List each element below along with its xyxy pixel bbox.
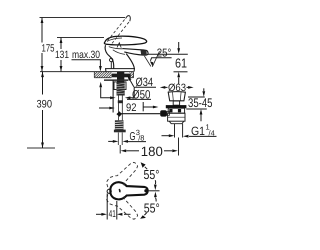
drain pop-up waste body [168,92,185,101]
horizontal drain rod + clamp [116,111,121,117]
wire bottom reference line (390 end) [27,147,55,149]
faucet spout [123,49,149,56]
deck hatch strokes [94,72,133,78]
svg-text:175: 175 [42,42,55,54]
G3/8 threaded end [115,120,124,129]
top view: pivot circle [107,189,111,193]
top view: lever dashed down [106,195,137,220]
faucet body outline [105,45,114,68]
threaded shank [117,82,125,96]
spray angle V [144,56,151,66]
top view: lever solid [110,182,147,199]
dimension 41 [106,194,108,220]
dimension 175 [41,18,43,72]
drain knob [160,110,167,116]
wire top reference line [40,17,126,19]
svg-text:55°: 55° [144,201,160,216]
centre pipe below [117,133,119,146]
dimension 131 [60,38,62,72]
dimension 61 [148,53,188,55]
svg-text:180: 180 [141,144,163,159]
svg-text:G: G [130,131,136,143]
55 upper arc [154,180,156,184]
svg-text:61: 61 [175,55,187,70]
svg-text:92: 92 [126,102,137,114]
wire deck reference line [40,71,134,73]
lever raised (dashed) [108,17,130,43]
55 lower arc [155,198,158,202]
svg-text:131: 131 [55,49,69,61]
dimension 180 [121,149,127,152]
svg-text:55°: 55° [144,167,160,182]
lever handle (side view, closed) [104,36,146,45]
svg-text:35-45: 35-45 [188,96,213,110]
svg-text:390: 390 [37,99,53,111]
lever pivot detail [117,43,121,48]
svg-text:41: 41 [109,209,116,220]
wire mid reference line (closed lever height) [57,37,104,39]
pull rod below deck [112,80,114,113]
dimension 390 [42,72,44,148]
below deck: mounting nut and washer [112,74,131,78]
top view: lever dashed up [106,162,137,187]
dimension 35-45 [188,96,205,98]
faucet escutcheon [105,69,135,72]
deck slab hatched [94,72,133,78]
svg-text:/8: /8 [138,133,144,142]
top view: tip reference line [148,190,160,192]
pull-rod knob [110,58,113,61]
supply pipe [118,96,120,121]
